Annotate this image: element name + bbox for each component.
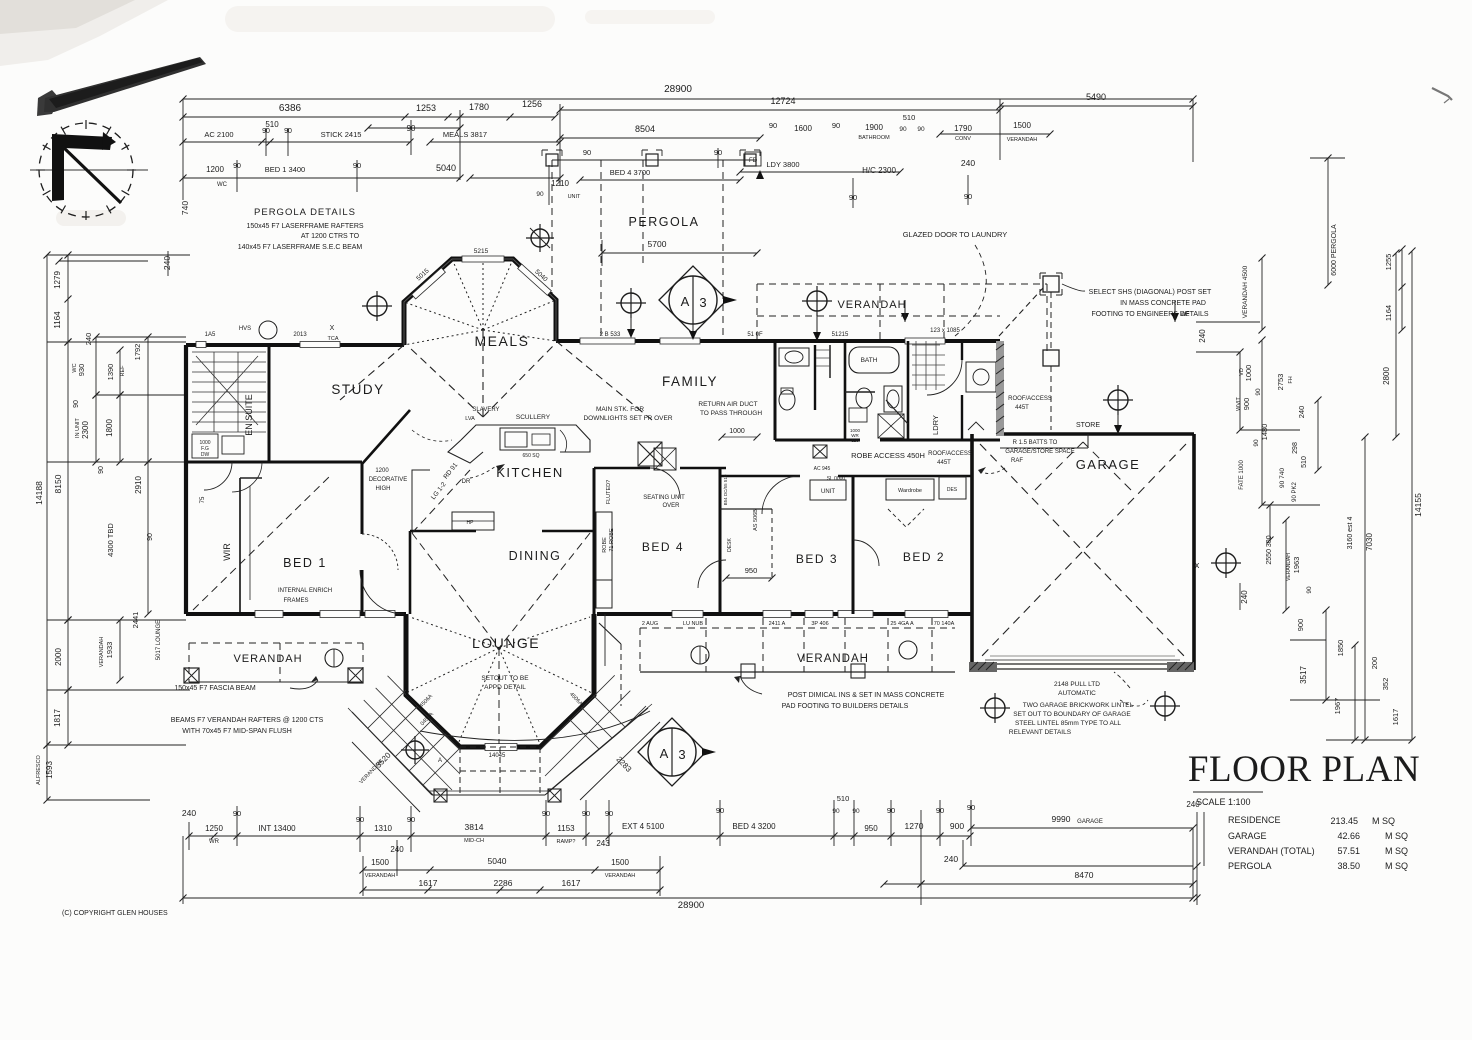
svg-text:1800: 1800 <box>105 419 114 437</box>
svg-text:1164: 1164 <box>1384 305 1393 321</box>
svg-text:90: 90 <box>583 148 591 157</box>
svg-text:REF: REF <box>120 365 126 377</box>
svg-text:2800: 2800 <box>1382 367 1391 385</box>
svg-text:SL 0000: SL 0000 <box>827 476 846 482</box>
svg-text:90 PK2: 90 PK2 <box>1292 481 1298 501</box>
svg-text:IN UNIT: IN UNIT <box>75 417 81 438</box>
svg-text:900: 900 <box>1242 398 1251 411</box>
verandah bottom-mid dashed band <box>640 627 955 629</box>
survey circle 2 <box>616 288 646 318</box>
meals diag to family <box>483 341 600 417</box>
svg-text:GARAGE: GARAGE <box>1228 831 1267 841</box>
svg-text:EXT 4 5100: EXT 4 5100 <box>622 822 665 831</box>
svg-text:BATHROOM: BATHROOM <box>858 135 890 141</box>
ensuite fixtures <box>192 434 218 458</box>
pergola dim 5700 <box>602 252 757 254</box>
svg-text:ROBE: ROBE <box>602 537 608 553</box>
svg-text:WC: WC <box>217 182 228 188</box>
svg-text:1255: 1255 <box>1384 254 1393 271</box>
interior wall ensuite south <box>186 461 362 464</box>
svg-text:PERGOLA: PERGOLA <box>629 215 700 229</box>
svg-text:3: 3 <box>678 747 685 762</box>
windows meals bay <box>462 256 504 262</box>
small arrows top walls <box>901 313 909 322</box>
meals dashed V <box>409 347 483 417</box>
interior wall bed2 west <box>852 476 855 614</box>
svg-text:1850: 1850 <box>1336 640 1345 657</box>
svg-text:25 4GA A: 25 4GA A <box>890 621 914 627</box>
interior wall bed3 west <box>719 468 722 614</box>
left small corner dim 240 <box>59 260 148 262</box>
svg-text:AUTOMATIC: AUTOMATIC <box>1058 690 1096 697</box>
store zig <box>968 422 984 430</box>
svg-text:1279: 1279 <box>53 271 62 289</box>
laundry trough <box>966 362 996 392</box>
svg-text:1500: 1500 <box>611 858 629 867</box>
shs diagonal dashed brace <box>999 288 1043 336</box>
svg-text:123 x 1085: 123 x 1085 <box>930 328 960 334</box>
svg-text:DESK: DESK <box>727 538 733 552</box>
svg-text:8150: 8150 <box>53 474 63 493</box>
svg-text:AC 2100: AC 2100 <box>204 130 233 139</box>
svg-text:STORE: STORE <box>1076 422 1100 429</box>
svg-text:200: 200 <box>1370 657 1379 670</box>
shower <box>878 414 904 438</box>
svg-text:1390: 1390 <box>106 364 115 381</box>
svg-text:90: 90 <box>1253 439 1260 447</box>
svg-text:14045: 14045 <box>489 753 506 759</box>
svg-text:240: 240 <box>1297 406 1306 419</box>
svg-text:FOOTING TO ENGINEERS DETAILS: FOOTING TO ENGINEERS DETAILS <box>1091 311 1208 318</box>
shs post top-right <box>1043 276 1059 292</box>
svg-text:TWO GARAGE BRICKWORK LINTEL: TWO GARAGE BRICKWORK LINTEL <box>1023 702 1134 709</box>
section marker A3 top <box>659 266 737 340</box>
svg-text:FAMILY: FAMILY <box>662 374 718 389</box>
svg-text:KITCHEN: KITCHEN <box>496 465 564 480</box>
svg-text:240: 240 <box>944 854 958 864</box>
svg-text:9990: 9990 <box>1052 814 1071 824</box>
svg-text:SELECT SHS (DIAGONAL) POST SET: SELECT SHS (DIAGONAL) POST SET <box>1089 289 1212 296</box>
scan smudge left <box>56 210 126 226</box>
svg-text:1963: 1963 <box>1292 557 1301 574</box>
svg-text:APPD DETAIL: APPD DETAIL <box>484 684 526 691</box>
svg-text:VERANDAH: VERANDAH <box>365 873 396 879</box>
garage door corner stubs <box>969 662 997 672</box>
svg-text:12724: 12724 <box>770 96 795 106</box>
svg-text:1933: 1933 <box>105 642 114 659</box>
deck crossed circle <box>401 736 429 764</box>
svg-text:240: 240 <box>162 256 172 270</box>
svg-text:2286: 2286 <box>494 878 513 888</box>
svg-text:DW: DW <box>201 452 210 458</box>
svg-text:FLOOR PLAN: FLOOR PLAN <box>1188 749 1420 790</box>
svg-text:240: 240 <box>84 333 93 346</box>
svg-text:WVIT: WVIT <box>1236 396 1242 410</box>
svg-text:240: 240 <box>1240 590 1249 604</box>
svg-text:INT 13400: INT 13400 <box>258 824 296 833</box>
vanity <box>779 348 809 366</box>
lounge dotted radials <box>406 648 499 693</box>
svg-text:EN SUITE: EN SUITE <box>244 394 254 436</box>
svg-text:3P 406: 3P 406 <box>811 621 828 627</box>
bath extra partitions <box>845 391 875 393</box>
svg-text:M SQ: M SQ <box>1372 816 1395 826</box>
svg-text:1310: 1310 <box>374 824 392 833</box>
svg-text:WIR: WIR <box>222 543 232 561</box>
deck posts <box>434 789 447 802</box>
svg-text:298: 298 <box>1292 442 1299 454</box>
svg-text:MID-CH: MID-CH <box>464 838 484 844</box>
svg-text:38.50: 38.50 <box>1337 861 1360 871</box>
svg-text:LDY 3800: LDY 3800 <box>766 160 799 169</box>
interior wall study diagonal <box>362 410 410 464</box>
svg-text:X: X <box>330 325 335 332</box>
meals dotted radials <box>404 302 483 330</box>
verandah bottom-left dashed outline <box>189 642 363 644</box>
svg-text:510: 510 <box>1301 456 1308 468</box>
kitchen bench west <box>412 470 430 530</box>
svg-text:HIGH: HIGH <box>376 486 391 492</box>
bottom long line 28900 <box>183 897 1193 899</box>
svg-text:2 AUG: 2 AUG <box>642 621 658 627</box>
garage door lines <box>997 663 1167 665</box>
svg-text:RELEVANT DETAILS: RELEVANT DETAILS <box>1009 729 1072 736</box>
garage roof X dashed <box>980 444 1186 658</box>
svg-text:90: 90 <box>917 126 925 133</box>
svg-text:GARAGE: GARAGE <box>1076 457 1141 472</box>
svg-text:VERANDAH: VERANDAH <box>797 653 869 665</box>
survey circle meals <box>526 224 554 252</box>
svg-text:FRAMES: FRAMES <box>283 598 308 604</box>
svg-text:FH: FH <box>1288 376 1294 383</box>
svg-text:FLUTED?: FLUTED? <box>606 480 612 504</box>
svg-text:BED 2: BED 2 <box>903 550 945 564</box>
svg-text:1256: 1256 <box>522 99 542 109</box>
svg-text:1780: 1780 <box>469 102 489 112</box>
survey circle garage top <box>1103 385 1133 415</box>
marker x box <box>813 445 827 458</box>
svg-text:2910: 2910 <box>134 476 143 494</box>
svg-text:1500: 1500 <box>1013 121 1031 130</box>
svg-text:DINING: DINING <box>509 549 562 563</box>
pergola dashed posts grid <box>552 159 757 161</box>
survey circle garage bottom right <box>1150 691 1180 721</box>
svg-text:1153: 1153 <box>557 824 575 833</box>
svg-text:4300 TBD: 4300 TBD <box>106 523 115 557</box>
svg-text:RAF: RAF <box>1011 458 1023 464</box>
svg-text:SET OUT TO BOUNDARY OF GARAGE: SET OUT TO BOUNDARY OF GARAGE <box>1013 711 1131 718</box>
svg-text:51215: 51215 <box>832 332 849 338</box>
robe boxes hall <box>810 480 846 500</box>
svg-text:VERANDAH: VERANDAH <box>1286 553 1292 581</box>
family cross marker <box>638 442 662 466</box>
svg-text:8470: 8470 <box>1075 870 1094 880</box>
svg-text:ROOF/ACCESS: ROOF/ACCESS <box>928 451 972 457</box>
stair grid en suite <box>192 351 266 353</box>
svg-text:LVA: LVA <box>465 416 475 422</box>
svg-text:RESIDENCE: RESIDENCE <box>1228 815 1281 825</box>
svg-text:3517: 3517 <box>1299 666 1308 684</box>
svg-text:900: 900 <box>950 821 964 831</box>
bed3 950 dim <box>726 577 772 579</box>
interior wall ensuite east <box>268 345 271 462</box>
svg-text:BED 4 3700: BED 4 3700 <box>610 168 650 177</box>
svg-text:90: 90 <box>769 121 777 130</box>
svg-text:UNIT: UNIT <box>568 194 581 200</box>
svg-text:AT 1200 CTRS TO: AT 1200 CTRS TO <box>301 233 360 240</box>
survey circle 1 <box>362 291 392 321</box>
svg-text:ROBE ACCESS 450H: ROBE ACCESS 450H <box>851 451 925 460</box>
svg-text:STICK 2415: STICK 2415 <box>321 130 362 139</box>
svg-text:71 ROBE: 71 ROBE <box>609 528 615 552</box>
hall wall north of beds <box>594 467 650 470</box>
svg-text:H/C 2300: H/C 2300 <box>862 166 896 175</box>
svg-text:3814: 3814 <box>465 822 484 832</box>
svg-text:M SQ: M SQ <box>1385 831 1408 841</box>
scan artifact dark streak <box>37 90 60 116</box>
svg-text:VERANDAH: VERANDAH <box>99 637 105 668</box>
svg-text:BED 1: BED 1 <box>283 556 327 570</box>
survey circle garage bottom left <box>980 693 1010 723</box>
svg-text:2300: 2300 <box>81 421 90 439</box>
svg-text:1480: 1480 <box>1260 424 1269 441</box>
svg-text:ROOF/ACCESS: ROOF/ACCESS <box>1008 396 1052 402</box>
svg-text:VERANDAH 4500: VERANDAH 4500 <box>1242 265 1249 318</box>
svg-text:M SQ: M SQ <box>1385 861 1408 871</box>
svg-text:SETOUT TO BE: SETOUT TO BE <box>481 675 529 682</box>
svg-text:8504: 8504 <box>635 124 655 134</box>
bath tub <box>849 347 899 373</box>
svg-text:1000: 1000 <box>729 428 745 435</box>
svg-text:240: 240 <box>1198 329 1207 343</box>
svg-text:1617: 1617 <box>562 878 581 888</box>
svg-text:445T: 445T <box>1015 405 1029 411</box>
laundry hatch marks <box>912 345 945 385</box>
svg-text:90: 90 <box>899 126 907 133</box>
verandah bm circles <box>691 646 709 664</box>
svg-text:WC: WC <box>72 363 78 372</box>
svg-text:LDRY: LDRY <box>931 415 940 435</box>
svg-text:WF: WF <box>1180 312 1190 318</box>
laundry bath block walls <box>774 341 777 440</box>
svg-text:OVER: OVER <box>662 503 680 509</box>
svg-text:BATH: BATH <box>861 357 878 364</box>
dining west wall <box>409 531 412 614</box>
svg-text:5040: 5040 <box>436 163 456 173</box>
svg-text:GLAZED DOOR TO LAUNDRY: GLAZED DOOR TO LAUNDRY <box>903 230 1008 239</box>
svg-text:1600: 1600 <box>794 124 812 133</box>
svg-text:150x45 F7 LASERFRAME RAFTERS: 150x45 F7 LASERFRAME RAFTERS <box>246 223 363 230</box>
svg-text:IN MASS CONCRETE PAD: IN MASS CONCRETE PAD <box>1120 300 1206 307</box>
svg-text:2000: 2000 <box>54 648 63 666</box>
svg-text:VERANDAH: VERANDAH <box>233 653 302 665</box>
svg-text:1790: 1790 <box>954 124 972 133</box>
svg-text:90: 90 <box>73 400 80 408</box>
svg-text:90 740: 90 740 <box>1279 468 1286 488</box>
svg-text:14155: 14155 <box>1413 493 1423 517</box>
section marker A3 bottom <box>638 718 716 786</box>
svg-text:SCULLERY: SCULLERY <box>516 414 551 421</box>
svg-text:70 140A: 70 140A <box>934 621 955 627</box>
svg-text:Wardrobe: Wardrobe <box>898 488 922 494</box>
right dim lines <box>1327 158 1329 285</box>
svg-text:RAMP?: RAMP? <box>557 839 576 845</box>
interior wall bed4 west <box>593 468 596 614</box>
svg-text:1000: 1000 <box>1244 365 1253 382</box>
svg-text:90: 90 <box>98 466 105 474</box>
tiled deck outer edge <box>352 712 432 795</box>
verandah bl circle <box>325 649 343 667</box>
svg-text:R 1.5 BATTS TO: R 1.5 BATTS TO <box>1013 440 1058 446</box>
svg-text:90: 90 <box>832 808 840 815</box>
svg-text:SCALE 1:100: SCALE 1:100 <box>1196 797 1251 807</box>
svg-text:GARAGE: GARAGE <box>1077 819 1103 825</box>
svg-text:A: A <box>438 758 442 764</box>
svg-text:TO PASS THROUGH: TO PASS THROUGH <box>700 410 762 417</box>
svg-text:352: 352 <box>1381 678 1390 691</box>
svg-text:14188: 14188 <box>34 481 44 505</box>
north arrow compass circle <box>39 123 133 217</box>
svg-text:SLAVERY: SLAVERY <box>472 407 499 413</box>
entry deck corner <box>599 623 621 644</box>
svg-text:90: 90 <box>1255 388 1262 396</box>
svg-text:140x45 F7 LASERFRAME S.E.C BEA: 140x45 F7 LASERFRAME S.E.C BEAM <box>238 244 363 251</box>
svg-text:DOWNLIGHTS SET FR OVER: DOWNLIGHTS SET FR OVER <box>583 415 672 422</box>
bottom main dim row <box>189 835 970 837</box>
verandah top-right dashed outline <box>757 283 1047 285</box>
svg-text:5040: 5040 <box>488 856 507 866</box>
kitchen scullery bench <box>461 425 590 452</box>
bottom second dim row <box>363 869 660 871</box>
svg-text:51 0F: 51 0F <box>747 332 763 338</box>
svg-text:90: 90 <box>832 121 840 130</box>
bottom right garage dims <box>971 827 1193 829</box>
right dims extra verticals <box>1239 352 1241 430</box>
svg-text:STEEL LINTEL 85mm TYPE TO ALL: STEEL LINTEL 85mm TYPE TO ALL <box>1015 720 1121 727</box>
svg-text:1817: 1817 <box>53 709 62 727</box>
svg-text:PERGOLA: PERGOLA <box>1228 861 1272 871</box>
svg-text:90: 90 <box>852 808 860 815</box>
top right pen mark <box>1432 88 1452 100</box>
svg-text:INTERNAL ENRICH: INTERNAL ENRICH <box>278 588 332 594</box>
svg-text:1164: 1164 <box>53 311 62 329</box>
svg-text:3: 3 <box>699 295 706 310</box>
windows south bed1 <box>320 611 360 618</box>
svg-text:240: 240 <box>961 158 975 168</box>
svg-text:MEALS 3817: MEALS 3817 <box>443 130 487 139</box>
scan smudge top center <box>225 6 555 32</box>
svg-text:POST DIMICAL INS & SET IN MASS: POST DIMICAL INS & SET IN MASS CONCRETE <box>788 692 945 699</box>
svg-text:VERANDAH: VERANDAH <box>837 299 906 311</box>
outer wall main perimeter <box>186 343 404 347</box>
svg-text:FATE 1000: FATE 1000 <box>1239 460 1245 490</box>
svg-text:WITH 70x45 F7 MID-SPAN FLUSH: WITH 70x45 F7 MID-SPAN FLUSH <box>182 728 292 735</box>
svg-text:2411 A: 2411 A <box>769 621 786 627</box>
svg-text:1900: 1900 <box>865 123 883 132</box>
windows south beds <box>672 611 703 618</box>
svg-text:5215: 5215 <box>474 248 489 255</box>
svg-text:WR: WR <box>209 839 220 845</box>
svg-text:5490: 5490 <box>1086 92 1106 102</box>
svg-text:LU NUB: LU NUB <box>683 621 704 627</box>
svg-text:28900: 28900 <box>678 900 704 911</box>
interior wall wir <box>239 478 241 614</box>
svg-text:A: A <box>660 746 669 761</box>
svg-text:2753: 2753 <box>1276 374 1285 391</box>
window lounge bay south <box>485 744 517 751</box>
north arrow <box>52 134 112 201</box>
svg-text:243: 243 <box>596 839 610 848</box>
door arc ensuite <box>232 462 262 492</box>
svg-text:DECORATIVE: DECORATIVE <box>369 477 408 483</box>
svg-text:LOUNGE: LOUNGE <box>472 635 540 651</box>
svg-text:57.51: 57.51 <box>1337 846 1360 856</box>
svg-text:90: 90 <box>147 533 154 541</box>
svg-text:TCA: TCA <box>328 336 339 342</box>
svg-text:1200: 1200 <box>206 165 224 174</box>
svg-text:(C) COPYRIGHT GLEN HOUSES: (C) COPYRIGHT GLEN HOUSES <box>62 910 168 917</box>
svg-text:90: 90 <box>1306 586 1313 594</box>
svg-text:110: 110 <box>851 438 859 443</box>
svg-text:240: 240 <box>182 808 196 818</box>
wc toilet <box>779 390 795 410</box>
svg-text:B54 DC/55 510: B54 DC/55 510 <box>723 474 728 505</box>
bed1 roof dashed diagonal <box>193 476 330 610</box>
svg-text:5700: 5700 <box>648 239 667 249</box>
survey circle garage right <box>1211 548 1241 578</box>
svg-text:BED 4 3200: BED 4 3200 <box>732 822 776 831</box>
svg-text:DES: DES <box>947 487 958 493</box>
svg-text:VERANDAH (TOTAL): VERANDAH (TOTAL) <box>1228 846 1315 856</box>
svg-text:1593: 1593 <box>45 761 54 779</box>
svg-text:A: A <box>681 294 690 309</box>
svg-text:150x45 F7 FASCIA BEAM: 150x45 F7 FASCIA BEAM <box>174 685 255 692</box>
svg-text:900: 900 <box>1296 619 1305 632</box>
interior wall bed1 east <box>361 462 364 534</box>
dining dashed diagonals <box>412 533 499 648</box>
svg-text:HP: HP <box>467 520 475 526</box>
dim row2 top <box>183 116 460 118</box>
svg-text:M SQ: M SQ <box>1385 846 1408 856</box>
svg-text:RETURN AIR DUCT: RETURN AIR DUCT <box>698 401 757 408</box>
svg-text:BEAMS F7 VERANDAH RAFTERS @ 12: BEAMS F7 VERANDAH RAFTERS @ 1200 CTS <box>171 717 324 724</box>
svg-text:1A5: 1A5 <box>205 332 216 338</box>
svg-text:MEALS: MEALS <box>475 333 530 349</box>
svg-text:5017 LOUNGE: 5017 LOUNGE <box>156 620 162 660</box>
svg-text:2550 300: 2550 300 <box>1266 535 1273 564</box>
svg-text:1500: 1500 <box>371 858 389 867</box>
svg-text:CONV: CONV <box>955 136 971 142</box>
svg-text:740: 740 <box>180 201 190 215</box>
svg-text:1617: 1617 <box>419 878 438 888</box>
svg-text:1200: 1200 <box>375 468 389 474</box>
dim row4 top <box>183 177 460 179</box>
svg-text:6000 PERGOLA: 6000 PERGOLA <box>1331 224 1338 276</box>
svg-text:950: 950 <box>864 824 878 833</box>
svg-text:GARAGE/STORE SPACE: GARAGE/STORE SPACE <box>1005 449 1074 455</box>
entry arcs <box>362 534 398 570</box>
pergola post squares <box>546 154 558 166</box>
svg-text:AC 945: AC 945 <box>814 466 831 472</box>
hall wall bed3 <box>720 475 800 477</box>
svg-text:STUDY: STUDY <box>331 382 384 397</box>
svg-text:AS 506B: AS 506B <box>753 509 759 531</box>
svg-text:UNIT: UNIT <box>821 489 835 495</box>
svg-text:445T: 445T <box>937 460 951 466</box>
svg-text:7030: 7030 <box>1365 533 1374 551</box>
shs post mid-right <box>1043 350 1059 366</box>
svg-text:213.45: 213.45 <box>1330 816 1358 826</box>
